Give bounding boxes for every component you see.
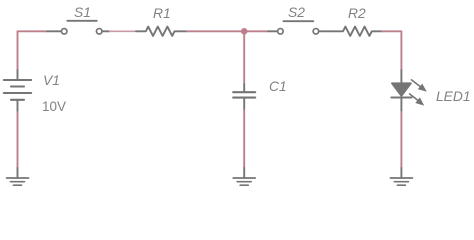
switch S1 bbox=[47, 21, 110, 34]
svg-text:R1: R1 bbox=[153, 6, 171, 21]
ground (left, under V1) bbox=[7, 168, 29, 185]
svg-text:C1: C1 bbox=[269, 79, 287, 94]
capacitor C1 bbox=[233, 84, 255, 110]
wire R1 to node bbox=[187, 30, 244, 32]
resistor R2 bbox=[330, 27, 382, 36]
wire C1 to ground bbox=[243, 110, 245, 168]
ground (right, under LED1) bbox=[390, 168, 412, 185]
svg-text:10V: 10V bbox=[42, 99, 66, 114]
battery V1 bbox=[4, 70, 31, 112]
ground (middle, under C1) bbox=[233, 168, 255, 185]
node junction dot bbox=[241, 28, 248, 35]
LED1 bbox=[391, 70, 411, 112]
resistor R1 bbox=[136, 27, 187, 36]
switch S2 bbox=[268, 21, 330, 34]
wire node to C1 bbox=[243, 31, 245, 84]
svg-text:V1: V1 bbox=[43, 73, 60, 88]
svg-text:LED1: LED1 bbox=[436, 89, 471, 104]
wire node to switch S2 bbox=[244, 30, 268, 32]
wire LED to ground bbox=[400, 112, 402, 168]
svg-text:S2: S2 bbox=[288, 5, 305, 20]
svg-text:S1: S1 bbox=[74, 5, 91, 20]
svg-text:R2: R2 bbox=[348, 6, 366, 21]
wire R2 to LED corner bbox=[382, 31, 401, 70]
LED light arrows bbox=[410, 80, 427, 106]
wire top-left from battery corner to switch S1 bbox=[18, 31, 48, 70]
wire battery to ground bbox=[17, 112, 19, 168]
wire S1 to R1 bbox=[110, 30, 137, 32]
